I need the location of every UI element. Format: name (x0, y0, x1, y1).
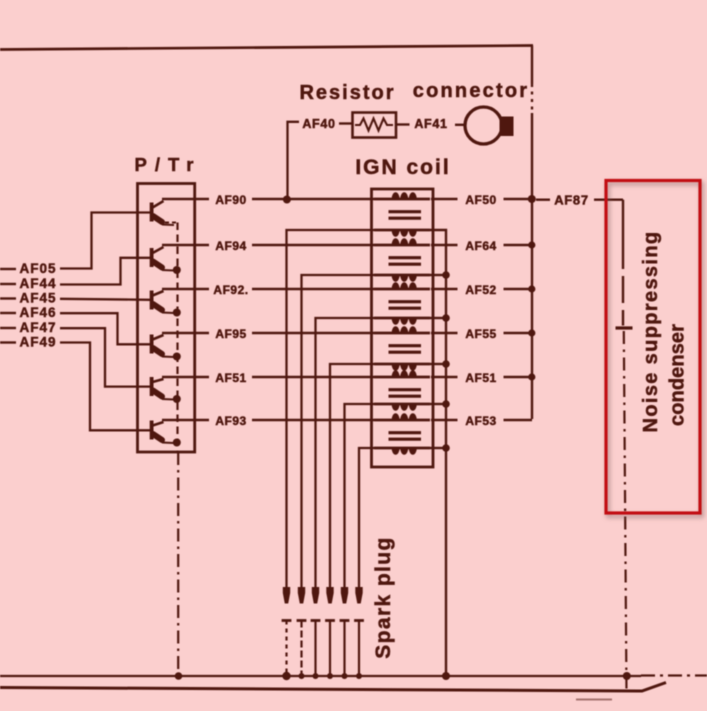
wire to right bus (504, 244, 533, 246)
spark plug SP3 (311, 587, 321, 676)
ground bus (0, 675, 641, 677)
transistor Q6 (152, 421, 174, 444)
svg-text:AF44: AF44 (19, 276, 56, 291)
wire coil secondary to spark plug 1 (287, 230, 375, 587)
wire to IGN coil (252, 288, 374, 290)
ignition coil T1 (374, 192, 430, 237)
ignition coil T4 (374, 326, 430, 371)
spark plug SP6 (354, 587, 364, 676)
junction emitter node Q4 (173, 353, 181, 361)
svg-text:AF47: AF47 (19, 320, 56, 335)
svg-text:IGN coil: IGN coil (355, 156, 450, 179)
svg-text:AF90: AF90 (215, 193, 246, 207)
junction emitter node Q2 (173, 266, 181, 274)
svg-text:AF53: AF53 (465, 414, 496, 428)
wire to IGN coil (252, 244, 374, 246)
wire collector row AF95 (162, 332, 209, 334)
svg-text:AF40: AF40 (302, 117, 335, 131)
wire collector row AF51 (162, 376, 209, 378)
bottom border (0, 683, 666, 692)
junction node emitter chain (175, 672, 183, 680)
wire secondary lead T4 (430, 363, 446, 365)
wire coil secondary to spark plug 2 (302, 275, 375, 587)
ignition coil T3 (374, 282, 430, 325)
svg-text:connector: connector (413, 80, 529, 102)
junction node on ground bus (356, 673, 362, 679)
junction node on ground bus (282, 672, 290, 680)
svg-text:AF46: AF46 (19, 305, 56, 320)
wire collector row AF94 (162, 244, 209, 246)
transistor Q5 (152, 377, 174, 400)
wire to IGN coil (252, 198, 374, 200)
wire to right bus (504, 376, 533, 378)
ignition coil T5 (374, 370, 430, 411)
wire to right bus (504, 198, 533, 200)
wire to IGN coil (252, 332, 374, 334)
resistor R1 (353, 113, 397, 138)
wire base route AF49 to Q6 (60, 343, 150, 431)
node AF45 (0, 297, 16, 299)
wire coil out row AF50 (431, 198, 458, 200)
wire (396, 123, 410, 125)
svg-text:Resistor: Resistor (299, 82, 395, 104)
wire coil secondary to spark plug 5 (345, 404, 375, 587)
IGN coil box (372, 189, 434, 467)
wire base route AF46 to Q4 (60, 313, 150, 344)
node AF44 (0, 283, 16, 285)
node AF49 (0, 341, 16, 343)
junction node on ground bus (342, 673, 348, 679)
junction node on ground bus (313, 673, 319, 679)
right border wire (531, 46, 533, 85)
wire emitter chain to ground bus (177, 452, 179, 676)
svg-text:P/Tr: P/Tr (135, 154, 202, 175)
ignition coil T6 (374, 413, 430, 455)
svg-text:AF51: AF51 (215, 371, 246, 385)
noise suppressing condenser C1 (616, 200, 633, 694)
junction node on right bus (528, 241, 535, 248)
wire emitter chain (176, 223, 178, 453)
transistor Q4 (152, 335, 174, 358)
top border (0, 46, 533, 50)
wire secondary lead T6 (430, 447, 446, 449)
junction node (442, 360, 450, 368)
wire to right bus (504, 419, 533, 421)
wire collector row AF92. (162, 288, 209, 290)
ignition coil T2 (374, 238, 430, 282)
junction node (442, 271, 450, 279)
wire coil out row AF55 (431, 332, 458, 334)
svg-text:AF45: AF45 (19, 291, 56, 306)
wire AF87 to condenser (594, 198, 623, 200)
wire base route AF45 to Q3 (60, 299, 150, 300)
junction node on right bus (528, 285, 535, 292)
wire to right bus (504, 288, 533, 290)
junction node on right bus (528, 329, 535, 336)
junction node on right bus (528, 373, 535, 380)
wire base route AF47 to Q5 (60, 328, 150, 386)
connector P1 (465, 107, 502, 144)
wire (339, 122, 352, 124)
spark plug SP1 (282, 587, 292, 676)
svg-text:AF49: AF49 (19, 335, 56, 350)
wire secondary lead T3 (430, 317, 446, 319)
svg-text:condenser: condenser (667, 324, 689, 426)
bottom border fragment (576, 699, 612, 701)
svg-text:AF50: AF50 (465, 193, 496, 207)
svg-text:AF93: AF93 (215, 414, 246, 428)
wire coil out row AF51 (431, 376, 458, 378)
wire coil secondary to spark plug 6 (359, 448, 374, 587)
svg-text:Noise suppressing: Noise suppressing (640, 231, 662, 433)
svg-text:AF95: AF95 (215, 327, 246, 341)
wire AF40 feed (288, 122, 300, 197)
svg-text:AF94: AF94 (215, 239, 246, 253)
spark plug SP2 (297, 587, 307, 676)
wire to IGN coil (252, 376, 374, 378)
svg-text:AF41: AF41 (414, 117, 447, 131)
wire (455, 124, 465, 126)
highlight box (606, 181, 700, 514)
wire coil out row AF64 (431, 244, 458, 246)
junction node (442, 444, 450, 452)
wire collector row AF93 (162, 419, 209, 421)
wire coil secondary to spark plug 3 (316, 318, 375, 587)
wire coil out row AF53 (431, 419, 458, 421)
spark plug SP5 (340, 587, 350, 676)
junction emitter node Q6 (173, 439, 181, 447)
junction node (442, 400, 450, 408)
transistor Q2 (152, 247, 174, 271)
wire coil secondary to spark plug 4 (330, 364, 374, 587)
junction node on AF90 line (283, 196, 291, 204)
junction node on right bus (528, 195, 536, 203)
junction emitter node Q5 (173, 395, 181, 403)
wire base route AF44 to Q2 (60, 258, 150, 285)
wire secondary lead T2 (430, 274, 446, 276)
node AF05 (0, 268, 16, 270)
svg-text:AF51: AF51 (465, 371, 496, 385)
node AF46 (0, 312, 16, 314)
wire to right bus (504, 332, 533, 334)
transistor Q3 (152, 291, 174, 314)
spark plug SP4 (325, 587, 335, 676)
wire to IGN coil (252, 419, 374, 421)
wire base route AF05 to Q1 (60, 213, 150, 269)
svg-text:AF52: AF52 (465, 283, 496, 297)
P/Tr box (138, 184, 195, 453)
junction node on ground bus (327, 673, 333, 679)
node AF47 (0, 327, 16, 329)
transistor Q1 (152, 201, 174, 225)
wire secondary lead T5 (430, 403, 446, 405)
junction node secondary return (442, 672, 450, 680)
svg-text:AF05: AF05 (19, 261, 56, 276)
junction node condenser (623, 672, 631, 680)
svg-text:AF64: AF64 (465, 239, 496, 253)
svg-text:AF87: AF87 (554, 193, 589, 208)
node AF87 (536, 198, 550, 200)
wire coil out row AF52 (431, 288, 458, 290)
wire collector row AF90 (162, 198, 209, 200)
junction emitter node Q3 (173, 309, 181, 317)
wire secondary return (430, 230, 446, 676)
svg-text:AF55: AF55 (465, 327, 496, 341)
junction node on ground bus (299, 673, 305, 679)
wire emitter dash Q1 (165, 222, 177, 224)
junction node (442, 314, 450, 322)
ground bus dash-dot (641, 674, 707, 676)
svg-text:Spark plug: Spark plug (372, 536, 395, 659)
svg-text:AF92.: AF92. (213, 283, 248, 297)
